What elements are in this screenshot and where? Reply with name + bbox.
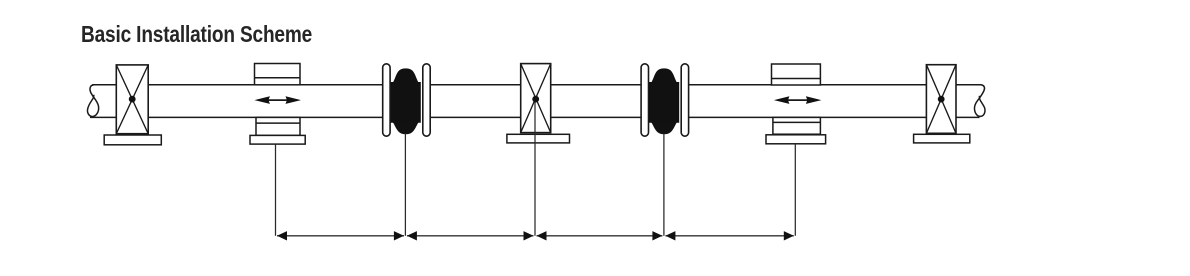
dimension arrow D3 <box>537 231 663 240</box>
left pipe break symbol <box>87 85 98 117</box>
dimension extension line from S2 <box>794 144 796 236</box>
sensor S1 bottom box <box>256 117 300 135</box>
valve V1 base <box>104 135 161 145</box>
wire: pipe bottom (valve V1 to coupling C1) <box>148 116 382 118</box>
coupling C1 left flange <box>383 64 390 136</box>
dimension extension line from C1 <box>404 133 406 236</box>
wire: pipe inlet top (break to valve V1) <box>92 84 116 86</box>
dimension extension line from C2 <box>663 133 665 236</box>
wire: pipe bottom (coupling C2 to valve V3) <box>689 116 927 118</box>
valve V2 stem dot <box>532 96 539 103</box>
sensor S1 top box <box>255 64 301 85</box>
coupling C2 bellows (black) <box>649 69 678 134</box>
dimension arrow D1 <box>277 231 404 240</box>
coupling C1 bellows (black) <box>391 69 420 134</box>
sensor S1 base plate <box>250 135 305 144</box>
title: Basic Installation Scheme <box>81 21 312 48</box>
sensor S2 bottom box <box>773 117 821 134</box>
coupling C2 right flange <box>681 64 688 136</box>
valve V3 stem dot <box>938 96 945 103</box>
coupling C2 left flange <box>641 64 648 136</box>
wire: pipe top (coupling C1 to valve V2) <box>430 84 520 86</box>
valve V2 body <box>521 64 551 133</box>
dimension extension line from V2 <box>534 99 536 236</box>
sensor S1 flow arrow (bidirectional) <box>254 96 301 104</box>
valve V3 body <box>926 65 956 134</box>
wire: pipe outlet bottom (valve V3 to break) <box>956 116 980 118</box>
valve V3 base <box>914 134 970 143</box>
dimension arrow D2 <box>407 231 534 240</box>
right pipe break symbol <box>974 85 984 117</box>
wire: pipe outlet top (valve V3 to break) <box>956 84 982 86</box>
sensor S2 top box <box>772 64 821 85</box>
wire: pipe top (coupling C2 to valve V3) <box>689 84 927 86</box>
wire: pipe top (valve V2 to coupling C2) <box>551 84 641 86</box>
wire: pipe bottom (valve V2 to coupling C2) <box>551 116 641 118</box>
wire: pipe inlet bottom (break to valve V1) <box>90 116 116 118</box>
wire: pipe top (valve V1 to coupling C1) <box>148 84 382 86</box>
dimension arrow D4 <box>665 231 793 240</box>
sensor S2 flow arrow (bidirectional) <box>774 96 822 104</box>
valve V1 body <box>116 65 148 134</box>
valve V2 base <box>507 134 570 143</box>
dimension extension line from S1 <box>275 144 277 236</box>
valve V1 stem dot <box>129 96 136 103</box>
wire: pipe bottom (coupling C1 to valve V2) <box>430 116 520 118</box>
sensor S2 base plate <box>766 135 826 144</box>
coupling C1 right flange <box>423 64 430 136</box>
